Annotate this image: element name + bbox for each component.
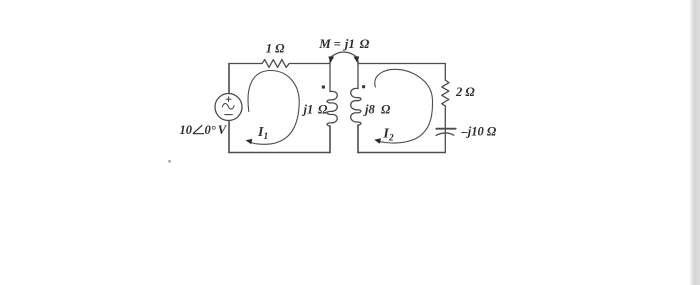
svg-text:=: = bbox=[334, 36, 341, 51]
angle symbol of source label bbox=[193, 125, 204, 134]
wire right coil column lower stub bbox=[357, 125, 359, 152]
svg-text:M: M bbox=[318, 36, 331, 51]
wire bottom rail left loop bbox=[229, 152, 330, 154]
svg-text:0°: 0° bbox=[205, 123, 216, 137]
stray dot artifact bbox=[168, 160, 171, 163]
polarity dot of L1 bbox=[322, 85, 325, 88]
svg-text:j8: j8 bbox=[363, 103, 375, 117]
svg-text:j1: j1 bbox=[302, 103, 314, 117]
wire left vertical upper (source top to top rail) bbox=[228, 64, 230, 94]
arrowhead of I2 bbox=[374, 138, 381, 144]
wire from R1 to left coil top corner bbox=[289, 63, 330, 65]
capacitor C1 bottom curved plate bbox=[436, 133, 454, 135]
wire left coil column upper stub bbox=[329, 61, 331, 92]
inductor L1 j1ohm coil (loops bulge right) bbox=[327, 91, 337, 126]
svg-text:Ω: Ω bbox=[360, 36, 370, 51]
polarity dot of L2 bbox=[362, 85, 365, 88]
wire right coil column upper stub bbox=[357, 61, 359, 89]
arrowhead of I1 bbox=[246, 139, 253, 144]
svg-text:Ω: Ω bbox=[318, 103, 328, 117]
svg-text:2 Ω: 2 Ω bbox=[455, 85, 475, 99]
svg-text:I2: I2 bbox=[382, 127, 393, 144]
arrowhead left of M arc bbox=[328, 56, 334, 63]
ac source sine symbol bbox=[222, 104, 234, 110]
ac source minus sign bbox=[225, 114, 233, 116]
ac source plus sign bbox=[226, 97, 231, 102]
svg-text:1 Ω: 1 Ω bbox=[266, 41, 285, 55]
wire left vertical lower (source bottom to bottom rail) bbox=[228, 121, 230, 153]
wire right vertical upper stub bbox=[444, 64, 446, 81]
svg-text:10: 10 bbox=[180, 123, 193, 137]
svg-text:Ω: Ω bbox=[381, 103, 391, 117]
wire left coil column lower stub bbox=[329, 126, 331, 153]
wire right vertical through capacitor to bottom rail bbox=[444, 106, 446, 153]
wire bottom rail right loop bbox=[358, 152, 445, 154]
mesh current I1 loop arrow bbox=[248, 70, 299, 144]
mutual coupling arc M bbox=[332, 52, 357, 57]
svg-text:I1: I1 bbox=[257, 125, 268, 142]
svg-text:j1: j1 bbox=[343, 36, 355, 51]
ac source VS circle bbox=[215, 94, 242, 121]
wire top rail from source to resistor R1 bbox=[229, 63, 262, 65]
svg-text:V: V bbox=[218, 123, 228, 137]
wire top rail right loop bbox=[358, 63, 445, 65]
mesh current I2 loop arrow bbox=[375, 69, 433, 143]
capacitor C1 top plate bbox=[436, 128, 455, 130]
resistor R1 1ohm zigzag bbox=[262, 60, 289, 68]
inductor L2 j8ohm coil (loops bulge left) bbox=[351, 88, 361, 125]
resistor R2 2ohm zigzag bbox=[442, 80, 449, 106]
arrowhead right of M arc bbox=[353, 56, 359, 63]
svg-text:–j10 Ω: –j10 Ω bbox=[461, 124, 497, 138]
